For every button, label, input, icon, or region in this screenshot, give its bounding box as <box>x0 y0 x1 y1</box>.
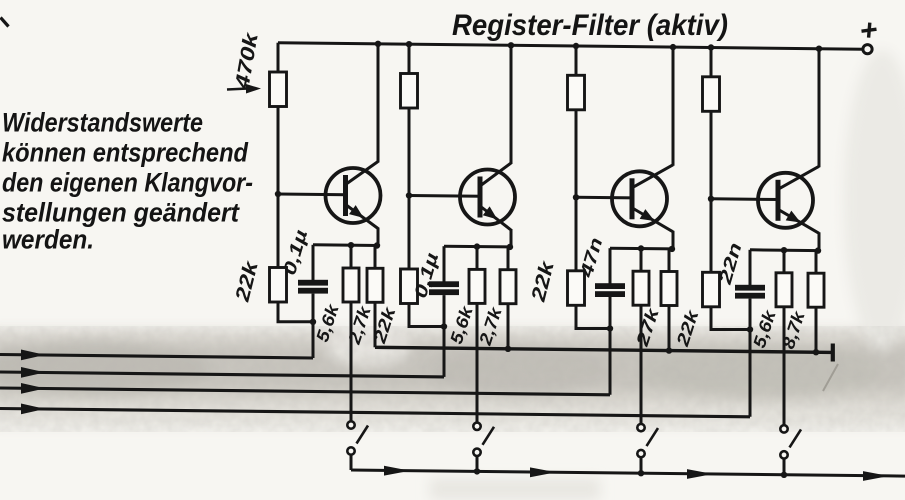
wire: R-out top lead stage 4 <box>815 251 818 275</box>
node: rail junction collector stage 3 <box>670 44 676 50</box>
capacitor 47n stage 3 <box>595 283 625 289</box>
node: emitter bus junctions stage 3 <box>638 245 644 251</box>
wire: R-switch top lead stage 2 <box>476 247 479 271</box>
node: rail junction bias stage 3 <box>573 43 579 49</box>
svg-text:stellungen geändert: stellungen geändert <box>2 198 240 228</box>
node: junction cap/22k stage 1 <box>310 319 316 325</box>
switch stage 4 <box>780 425 801 458</box>
resistor 22k base stage 1 <box>270 268 287 303</box>
wire: emitter bus stage 4 <box>750 248 819 252</box>
wire: cap bottom lead stage 4 <box>749 299 752 330</box>
wire: junction down to input bus 2 <box>443 327 446 377</box>
wire: collector to rail stage 1 <box>377 44 380 163</box>
resistor 22k base stage 2 <box>401 269 418 304</box>
+ terminal circle <box>863 45 872 54</box>
wire: junction down to input bus 1 <box>312 322 315 358</box>
wire: rail to bias resistor stage 1 <box>277 43 280 73</box>
wire: input bus 1 <box>0 355 313 359</box>
transistor Q3 <box>612 165 673 232</box>
wire: switch to bottom line stage 3 <box>640 457 643 473</box>
wire: emitter bus stage 2 <box>444 245 511 249</box>
wire: R-out top lead stage 3 <box>668 249 671 273</box>
resistor to output line stage 3 <box>661 272 677 306</box>
resistor to output line stage 2 <box>500 270 516 304</box>
caption text block <box>2 108 253 255</box>
wire: emitter down to emitter bus stage 4 <box>818 232 821 251</box>
resistor to switch stage 3 <box>633 271 649 305</box>
wire: R-switch top lead stage 3 <box>640 249 643 273</box>
wire: bias resistor to base node stage 2 <box>408 108 411 196</box>
wire: bias resistor to base node stage 1 <box>277 106 280 194</box>
wire: R-out top lead stage 1 <box>374 246 377 270</box>
wire: emitter bus stage 1 <box>313 243 378 247</box>
wire: base node to base-bus resistor stage 2 <box>408 196 411 271</box>
wire: base node to base-bus resistor stage 1 <box>277 194 280 269</box>
resistor 22k base stage 4 <box>703 272 720 307</box>
node: output line junction stage 4 <box>813 349 819 355</box>
node: bottom line junction stage 2 <box>474 468 480 474</box>
wire: base node to base-bus resistor stage 3 <box>575 197 578 271</box>
wire: base wire stage 3 <box>576 196 634 200</box>
wire: 22k bottom dogleg to junction stage 4 <box>711 306 750 329</box>
wire: R-out top lead stage 2 <box>507 247 510 271</box>
capacitor 0,1µ stage 2 <box>429 281 459 287</box>
resistor bias (bias) stage 4 <box>703 77 720 112</box>
wire: R-out down to output line stage 2 <box>507 304 510 349</box>
node: emitter bus junctions stage 2 <box>474 243 480 249</box>
wire: base node to base-bus resistor stage 4 <box>710 199 713 273</box>
node: rail junction collector stage 1 <box>375 41 381 47</box>
node: rail junction collector stage 4 <box>816 46 822 52</box>
wire: cap bottom lead stage 3 <box>609 297 612 329</box>
wire: R-out down to output line stage 4 <box>815 307 818 352</box>
wire: base wire stage 4 <box>711 197 780 201</box>
resistor to switch stage 4 <box>776 273 792 307</box>
wire: cap top lead stage 4 <box>749 250 752 286</box>
annotation arrow to 470k <box>227 89 248 90</box>
wire: base wire stage 2 <box>409 194 482 198</box>
wire: switch to bottom line stage 4 <box>783 459 786 475</box>
node: junction cap/22k stage 3 <box>607 325 613 331</box>
switch stage 3 <box>637 424 658 457</box>
node: emitter bus junctions stage 1 <box>348 242 354 248</box>
+ sign <box>862 29 877 31</box>
node: junction cap/22k stage 2 <box>441 323 447 329</box>
node: base junction stage 3 <box>573 194 579 200</box>
node: base junction stage 4 <box>708 196 714 202</box>
wire: input bus 4 <box>0 409 750 417</box>
wire: R-switch down to switch stage 2 <box>476 303 479 422</box>
node: rail junction collector stage 2 <box>508 42 514 48</box>
svg-text:Register-Filter (aktiv): Register-Filter (aktiv) <box>452 9 728 42</box>
transistor Q1 <box>326 162 381 229</box>
wire: output line (mid) <box>375 347 833 352</box>
transistor Q4 <box>758 166 819 233</box>
wire: + supply rail <box>278 43 863 50</box>
wire: junction down to input bus 4 <box>749 330 752 417</box>
node: emitter bus junctions stage 4 <box>781 247 787 253</box>
resistor to switch stage 1 <box>343 268 359 302</box>
wire: emitter down to emitter bus stage 1 <box>377 228 380 247</box>
svg-text:werden.: werden. <box>2 225 94 255</box>
wire: input bus 3 <box>0 388 610 395</box>
node: rail junction bias stage 4 <box>708 44 714 50</box>
resistor bias 470k stage 1 <box>270 72 287 107</box>
wire: rail to bias resistor stage 2 <box>408 44 411 74</box>
svg-text:Widerstandswerte: Widerstandswerte <box>2 108 203 138</box>
wire: R-out down to output line stage 3 <box>668 306 671 351</box>
resistor bias (bias) stage 2 <box>401 74 418 109</box>
svg-text:den eigenen Klangvor-: den eigenen Klangvor- <box>2 168 253 198</box>
node: output line junction stage 3 <box>666 347 672 353</box>
resistor to output line stage 1 <box>367 268 383 302</box>
node: base junction stage 2 <box>406 192 412 198</box>
scan edge mark top-left <box>1 18 9 27</box>
wire: emitter bus stage 3 <box>610 247 673 251</box>
node: rail junction bias stage 2 <box>406 41 412 47</box>
wire: bias resistor to base node stage 3 <box>575 109 578 197</box>
wire: switch to bottom line stage 2 <box>476 456 479 472</box>
wire: input bus 2 <box>0 372 444 377</box>
svg-text:können entsprechend: können entsprechend <box>2 138 249 168</box>
wire: junction down to input bus 3 <box>609 329 612 395</box>
pencil slash bottom right <box>823 364 838 391</box>
wire: R-out down to output line stage 1 <box>374 302 377 347</box>
wire: rail to bias resistor stage 3 <box>575 46 578 76</box>
wire: R-switch down to switch stage 1 <box>350 302 353 421</box>
wire: cap top lead stage 2 <box>443 246 446 282</box>
switch stage 1 <box>347 421 368 454</box>
capacitor 22n stage 4 <box>735 285 765 291</box>
wire: 22k bottom dogleg to junction stage 3 <box>576 305 610 329</box>
wire: emitter down to emitter bus stage 2 <box>510 229 513 248</box>
wire: rail to bias resistor stage 4 <box>710 48 713 78</box>
wire: emitter down to emitter bus stage 3 <box>672 231 675 250</box>
wire: collector to rail stage 3 <box>672 47 675 166</box>
transistor Q2 <box>460 163 515 230</box>
wire: bias resistor to base node stage 4 <box>710 111 713 199</box>
node: output line junction stage 2 <box>505 346 511 352</box>
wire: R-switch top lead stage 4 <box>783 250 786 274</box>
wire: 22k bottom dogleg to junction stage 2 <box>409 303 444 327</box>
node: junction cap/22k stage 4 <box>747 326 753 332</box>
wire: base wire stage 1 <box>278 193 347 197</box>
wire: cap top lead stage 1 <box>312 245 315 281</box>
wire: 22k bottom dogleg to junction stage 1 <box>278 302 313 322</box>
wire: R-switch top lead stage 1 <box>350 245 353 269</box>
wire: R-switch down to switch stage 4 <box>783 307 786 426</box>
wire: switch to bottom line stage 1 <box>350 455 353 470</box>
node: bottom line junction stage 3 <box>638 470 644 476</box>
wire: collector to rail stage 2 <box>510 45 513 164</box>
wire: cap bottom lead stage 1 <box>312 294 315 322</box>
node: bottom line junction stage 4 <box>781 472 787 478</box>
wire: cap top lead stage 3 <box>609 248 612 284</box>
resistor to switch stage 2 <box>469 269 485 303</box>
terminal bar at end of output line <box>831 344 835 362</box>
resistor 22k base stage 3 <box>568 271 585 306</box>
wire: collector to rail stage 4 <box>818 49 821 168</box>
wire: bottom output line with arrows <box>351 470 905 476</box>
resistor to output line stage 4 <box>808 273 824 307</box>
switch stage 2 <box>473 423 494 456</box>
wire: cap bottom lead stage 2 <box>443 295 446 326</box>
node: base junction stage 1 <box>275 191 281 197</box>
capacitor 0,1µ stage 1 <box>298 280 328 286</box>
resistor bias (bias) stage 3 <box>568 75 585 110</box>
wire: R-switch down to switch stage 3 <box>640 305 643 424</box>
